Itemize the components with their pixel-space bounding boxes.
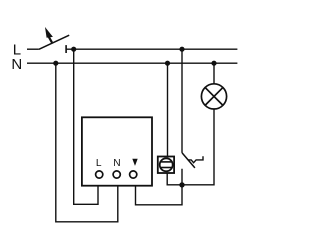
svg-text:L: L: [96, 158, 102, 169]
svg-text:N: N: [11, 56, 22, 73]
svg-text:N: N: [113, 158, 120, 169]
